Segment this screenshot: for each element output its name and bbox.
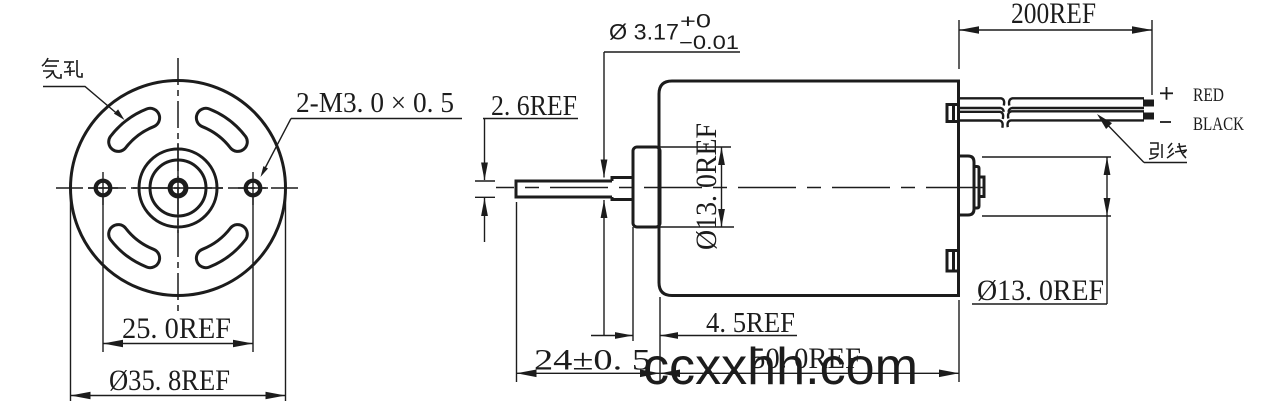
motor shaft	[516, 178, 633, 200]
dimension diameter 35.8REF	[71, 192, 286, 401]
svg-text:2-M3. 0 × 0. 5: 2-M3. 0 × 0. 5	[296, 87, 454, 119]
vent slot top-right	[196, 108, 247, 151]
dimension 25.0REF	[103, 197, 253, 352]
lead wire upper	[959, 98, 1145, 115]
minus polarity mark	[1160, 121, 1171, 123]
motor body	[659, 81, 959, 296]
label 气孔 (air vent)	[42, 58, 82, 78]
wire tip upper	[1143, 100, 1154, 107]
dimension diameter 13.0REF (boss)	[640, 123, 734, 250]
rear bearing bump step 2	[974, 167, 979, 209]
rear bearing bump step 3	[979, 177, 984, 197]
label RED	[1193, 85, 1224, 106]
top terminal tab	[947, 105, 959, 122]
svg-text:−0.01: −0.01	[679, 33, 739, 54]
svg-text:Ø13. 0REF: Ø13. 0REF	[690, 123, 723, 250]
right mounting hole	[238, 172, 268, 205]
svg-text:Ø 3.17: Ø 3.17	[609, 20, 679, 45]
leader line for 气孔	[43, 87, 125, 121]
svg-text:BLACK: BLACK	[1193, 114, 1244, 135]
label BLACK	[1193, 114, 1244, 135]
side view centerline	[496, 187, 994, 189]
dimension 2.6REF	[475, 90, 578, 242]
left view vertical centerline	[177, 58, 179, 313]
dimension diameter 13.0REF (rear bump)	[972, 157, 1111, 307]
svg-text:25. 0REF: 25. 0REF	[122, 312, 231, 345]
svg-text:ccxxhh.com: ccxxhh.com	[643, 338, 918, 396]
svg-text:24±0. 5: 24±0. 5	[534, 344, 651, 377]
bottom terminal tab	[947, 251, 959, 272]
shaft boss (bearing hub)	[633, 147, 660, 227]
dimension 200REF	[959, 0, 1152, 95]
hub outer circle	[139, 149, 217, 227]
left view horizontal centerline	[56, 187, 300, 189]
vent slot bottom-right	[196, 225, 247, 268]
dimension diameter 3.17 +0/-0.01	[601, 12, 740, 337]
motor end cap outer circle	[71, 81, 286, 296]
shaft end circle	[170, 180, 186, 196]
rear bearing bump step 1	[959, 156, 975, 215]
watermark ccxxhh.com	[643, 338, 918, 396]
wire tip lower	[1143, 113, 1154, 120]
svg-text:+0: +0	[680, 12, 711, 33]
svg-text:4. 5REF: 4. 5REF	[706, 307, 795, 339]
vent slot top-left	[109, 108, 160, 151]
hub crosshair	[133, 143, 223, 233]
lead wire lower	[959, 111, 1145, 127]
dimension 4.5REF	[591, 227, 797, 382]
svg-text:200REF: 200REF	[1011, 0, 1096, 30]
plus polarity mark	[1160, 87, 1173, 100]
left mounting hole	[88, 172, 118, 205]
svg-text:Ø35. 8REF: Ø35. 8REF	[109, 364, 230, 397]
svg-text:2. 6REF: 2. 6REF	[491, 90, 577, 122]
leader line for 2-M3.0 x 0.5	[261, 119, 292, 178]
svg-text:Ø13. 0REF: Ø13. 0REF	[977, 274, 1104, 307]
label 2-M3.0 x 0.5	[291, 87, 462, 119]
svg-text:RED: RED	[1193, 85, 1224, 106]
vent slot bottom-left	[109, 225, 160, 268]
dimension 24 +/-0.5 and 50.0REF	[517, 202, 960, 382]
hub inner circle	[150, 160, 206, 216]
label 引线 (lead wire) with leader	[1149, 143, 1187, 159]
